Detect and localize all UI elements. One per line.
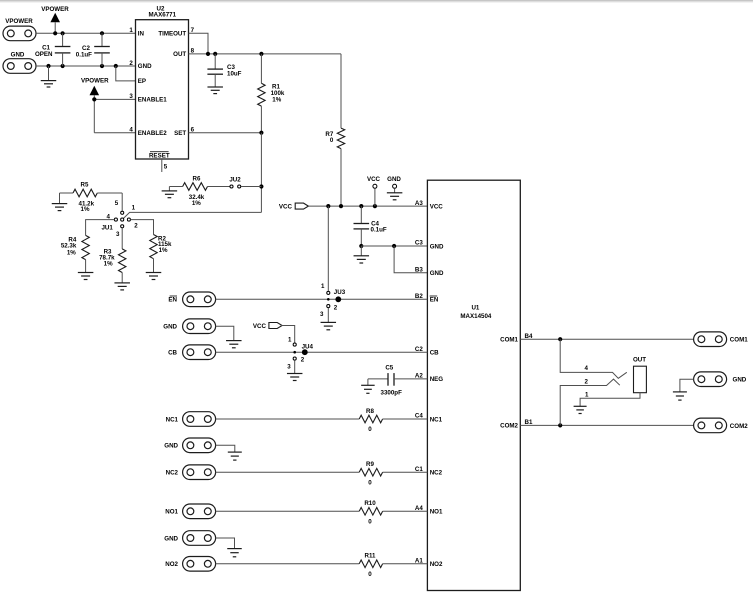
- jumper JU4 pin1: [293, 343, 296, 346]
- connector COM1 pad: [694, 332, 727, 347]
- wire COM1 net: [520, 338, 693, 340]
- svg-text:NC1: NC1: [430, 416, 443, 423]
- svg-text:C3: C3: [415, 240, 423, 247]
- ground (C4): [354, 246, 370, 263]
- connector EN pad: [183, 292, 216, 307]
- svg-text:GND: GND: [430, 243, 444, 250]
- svg-text:VPOWER: VPOWER: [5, 18, 33, 25]
- junction set-R1: [259, 131, 263, 135]
- svg-text:EN: EN: [430, 297, 439, 304]
- svg-text:CB: CB: [430, 350, 439, 357]
- wire JU1 pin4 net: [86, 220, 115, 236]
- svg-text:2: 2: [134, 223, 138, 230]
- svg-text:1%: 1%: [81, 206, 90, 213]
- connector GND pad: [3, 59, 36, 74]
- resistor R8: [359, 415, 382, 423]
- resistor R5: [60, 189, 123, 197]
- svg-text:3300pF: 3300pF: [381, 390, 403, 397]
- svg-text:ENABLE2: ENABLE2: [138, 130, 167, 137]
- ground (GND pad2): [226, 341, 242, 348]
- capacitor C1: [55, 33, 71, 66]
- wire JU3 pin3 net: [327, 308, 329, 323]
- junction wire2-C2: [100, 64, 104, 68]
- connector GND pad 4: [183, 531, 216, 546]
- capacitor C3: [207, 54, 223, 87]
- svg-text:VPOWER: VPOWER: [41, 6, 69, 13]
- ground (JU4): [287, 374, 303, 381]
- jumper JU1 pin4: [114, 218, 117, 221]
- svg-text:NO2: NO2: [430, 561, 443, 568]
- resistor R10: [359, 508, 382, 516]
- connector GND pad 3: [183, 438, 216, 453]
- svg-text:A3: A3: [415, 200, 423, 207]
- power flag VCC 1: [295, 203, 308, 209]
- wire EN net: [216, 298, 428, 300]
- svg-text:COM2: COM2: [500, 423, 518, 430]
- connector NC1 pad: [183, 412, 216, 427]
- svg-text:EP: EP: [138, 78, 146, 85]
- svg-text:GND: GND: [11, 52, 25, 59]
- jumper JU1 pin5: [121, 211, 124, 214]
- ground (R4): [78, 273, 94, 280]
- jumper JU1 pin2: [127, 218, 130, 221]
- connector COM2 pad: [694, 418, 727, 433]
- jumper JU1 pin3: [121, 225, 124, 228]
- wire NC2 net right: [383, 471, 428, 473]
- svg-text:0: 0: [368, 426, 372, 433]
- svg-text:5: 5: [115, 200, 119, 207]
- svg-text:3: 3: [287, 364, 291, 371]
- svg-text:1%: 1%: [104, 260, 113, 267]
- svg-text:VCC: VCC: [367, 176, 381, 183]
- label EN pad (overline): [168, 296, 177, 304]
- wire VCC rail: [308, 205, 427, 207]
- svg-text:COM1: COM1: [730, 337, 748, 344]
- wire GND net: [36, 65, 136, 67]
- connector GND pad 2: [183, 319, 216, 334]
- resistor R2: [150, 235, 157, 273]
- connector VPOWER pad: [3, 26, 36, 41]
- wire JU2 to node1: [241, 186, 262, 188]
- svg-text:ENABLE1: ENABLE1: [138, 97, 167, 104]
- wire TIMEOUT: [189, 33, 209, 54]
- testpoint GND: [393, 184, 397, 193]
- jumper JU3 pin2: [327, 305, 330, 308]
- junction gnd-B3: [392, 244, 396, 248]
- svg-text:U1: U1: [471, 304, 479, 311]
- ground (GND testpoint): [387, 193, 403, 200]
- svg-text:1: 1: [132, 204, 136, 211]
- svg-text:0: 0: [330, 137, 334, 144]
- svg-text:2: 2: [301, 357, 305, 364]
- junction COM1: [558, 337, 562, 341]
- resistor R1: [258, 54, 265, 133]
- wire NO2 net right: [383, 563, 428, 565]
- wire JU4 pin3 net: [294, 360, 296, 373]
- svg-text:3: 3: [320, 311, 324, 318]
- svg-text:NC2: NC2: [166, 470, 179, 477]
- wire CB net: [216, 351, 428, 353]
- junction vcc-R7: [339, 204, 343, 208]
- svg-text:JU1: JU1: [101, 224, 113, 231]
- wire B3 branch: [394, 246, 427, 273]
- svg-text:R5: R5: [81, 181, 89, 188]
- wire NO2 net left: [216, 563, 360, 565]
- connector CB pad: [183, 345, 216, 360]
- svg-text:4: 4: [129, 127, 133, 134]
- junction vcc-JU3: [326, 204, 330, 208]
- junction vcc-C4: [359, 204, 363, 208]
- wire jack pin4: [560, 339, 627, 378]
- svg-text:NC2: NC2: [430, 470, 443, 477]
- svg-text:JU2: JU2: [229, 176, 241, 183]
- svg-text:GND: GND: [138, 63, 152, 70]
- pin name EN (overline): [430, 296, 439, 304]
- wire COM2 net: [520, 424, 693, 426]
- svg-text:1: 1: [288, 337, 292, 344]
- resistor R11: [359, 560, 382, 568]
- junction node1-JU2: [259, 184, 263, 188]
- wire NC1 net right: [383, 418, 428, 420]
- svg-text:VCC: VCC: [430, 203, 444, 210]
- svg-text:2: 2: [585, 379, 589, 386]
- power flag VCC 2: [269, 323, 282, 329]
- svg-text:B3: B3: [415, 266, 423, 273]
- capacitor C2: [94, 33, 110, 66]
- svg-text:RESET: RESET: [149, 152, 170, 159]
- ground (jack): [574, 406, 587, 413]
- junction timeout-out: [206, 52, 210, 56]
- svg-text:VPOWER: VPOWER: [81, 77, 109, 84]
- junction out-R1: [259, 52, 263, 56]
- wire GND right: [680, 379, 694, 392]
- svg-text:0: 0: [368, 479, 372, 486]
- svg-text:GND: GND: [430, 270, 444, 277]
- ground (R6): [162, 187, 178, 198]
- svg-text:1%: 1%: [159, 247, 168, 254]
- testpoint VCC: [373, 184, 377, 206]
- power VPOWER symbol 2: [90, 86, 100, 133]
- svg-text:SET: SET: [174, 130, 186, 137]
- svg-text:GND: GND: [164, 535, 178, 542]
- ground (GND pad3): [228, 452, 242, 460]
- junction CB wire: [302, 349, 308, 355]
- jumper JU4 pin2: [293, 357, 296, 360]
- svg-text:VCC: VCC: [253, 323, 267, 330]
- svg-text:EN: EN: [168, 297, 177, 304]
- svg-text:R8: R8: [366, 408, 374, 415]
- wire node1 vertical: [260, 133, 262, 213]
- svg-text:1%: 1%: [192, 200, 201, 207]
- svg-text:10uF: 10uF: [227, 71, 242, 78]
- capacitor C4: [354, 206, 370, 246]
- svg-text:3: 3: [116, 231, 120, 238]
- svg-text:MAX14504: MAX14504: [460, 313, 492, 320]
- ground (JU3): [321, 322, 337, 329]
- ground (R2): [146, 273, 162, 280]
- wire EP branch: [116, 66, 136, 81]
- junction enable1: [92, 97, 96, 101]
- ground (C3): [207, 87, 223, 94]
- ground (GND pad4): [227, 549, 242, 557]
- svg-text:VCC: VCC: [279, 203, 293, 210]
- svg-text:CB: CB: [168, 350, 177, 357]
- junction wire2-gnd: [46, 64, 50, 68]
- pin name RESET (overline): [149, 152, 170, 160]
- power VPOWER symbol 1: [50, 13, 60, 34]
- resistor R7: [337, 54, 344, 206]
- ground (C5): [361, 379, 375, 393]
- ground (GND right): [673, 392, 687, 400]
- wire JU3 pin1 net: [327, 206, 329, 291]
- connector NO2 pad: [183, 557, 216, 572]
- resistor R4: [82, 235, 89, 272]
- wire JU1 pin2 net: [130, 220, 153, 235]
- resistor R6: [169, 183, 230, 191]
- svg-text:NO1: NO1: [430, 509, 443, 516]
- wire ENABLE2: [94, 132, 135, 134]
- connector NO1 pad: [183, 504, 216, 519]
- svg-text:COM2: COM2: [730, 423, 748, 430]
- svg-text:1: 1: [321, 283, 325, 290]
- junction wire1-C1: [61, 31, 65, 35]
- svg-text:2: 2: [334, 305, 338, 312]
- wire ENABLE1: [94, 98, 135, 100]
- svg-text:COM1: COM1: [500, 336, 518, 343]
- wire jack pin1: [580, 393, 640, 407]
- junction wire2-EP: [114, 64, 118, 68]
- svg-text:GND: GND: [164, 443, 178, 450]
- svg-text:NO2: NO2: [165, 561, 178, 568]
- svg-text:R10: R10: [364, 500, 376, 507]
- svg-text:4: 4: [585, 365, 589, 372]
- svg-text:C5: C5: [385, 365, 393, 372]
- svg-text:NO1: NO1: [165, 509, 178, 516]
- svg-text:MAX6771: MAX6771: [149, 12, 177, 19]
- svg-text:NC1: NC1: [166, 416, 179, 423]
- junction wire2-C1: [61, 64, 65, 68]
- wire C3GND pin: [361, 245, 427, 247]
- wire JU1 pin3 net: [121, 228, 123, 249]
- junction JU4 mid: [293, 351, 296, 354]
- wire node1 horizontal: [123, 212, 261, 218]
- svg-text:OPEN: OPEN: [35, 51, 53, 58]
- svg-text:2: 2: [129, 60, 133, 67]
- resistor R3: [119, 249, 126, 283]
- svg-text:0.1uF: 0.1uF: [76, 51, 92, 58]
- wire jack pin2: [560, 379, 620, 425]
- svg-text:1: 1: [129, 27, 133, 34]
- ground (R3): [114, 283, 130, 290]
- jack J1 sleeve (OUT): [634, 366, 647, 393]
- svg-text:R6: R6: [193, 176, 201, 183]
- wire JU4 pin1 net: [281, 326, 295, 343]
- svg-text:0.1uF: 0.1uF: [371, 227, 387, 234]
- junction JU3 mid: [327, 298, 330, 301]
- jumper JU1 center: [121, 218, 124, 221]
- op-amp U1 MAX14504 box: [427, 180, 520, 590]
- junction EN wire: [335, 296, 341, 302]
- junction COM2: [558, 423, 562, 427]
- svg-text:R9: R9: [366, 461, 374, 468]
- junction out-C3: [213, 52, 217, 56]
- op-amp U2 MAX6771 box: [136, 20, 189, 159]
- svg-text:3: 3: [129, 93, 133, 100]
- svg-text:OUT: OUT: [633, 357, 646, 364]
- capacitor C5: [368, 373, 428, 386]
- svg-text:JU4: JU4: [302, 343, 314, 350]
- resistor R9: [359, 468, 382, 476]
- pin 5 stem (RESET): [161, 159, 163, 172]
- connector NC2 pad: [183, 465, 216, 480]
- svg-text:OUT: OUT: [173, 51, 186, 58]
- wire VPOWER net (IN): [36, 32, 136, 34]
- wire OUT net: [189, 53, 342, 55]
- wire GND pad2: [216, 326, 234, 340]
- wire NO1 net right: [383, 510, 428, 512]
- wire SET net: [189, 132, 262, 134]
- svg-text:1%: 1%: [67, 249, 76, 256]
- wire R5 to JU1 pin5: [121, 193, 123, 211]
- svg-text:GND: GND: [387, 176, 401, 183]
- svg-text:JU3: JU3: [334, 289, 346, 296]
- wire GND pad4: [216, 538, 235, 549]
- wire NC1 net left: [216, 418, 360, 420]
- connector GND pad right: [694, 372, 727, 387]
- wire GND pad3: [216, 445, 235, 452]
- svg-text:R11: R11: [364, 553, 376, 560]
- junction wire1-C2: [100, 31, 104, 35]
- svg-text:GND: GND: [163, 324, 177, 331]
- ground (input GND): [41, 66, 57, 87]
- svg-text:NEG: NEG: [430, 376, 444, 383]
- junction wire1-arrow: [53, 31, 57, 35]
- junction vcc-tp: [373, 204, 377, 208]
- jumper JU3 pin1: [327, 291, 330, 294]
- svg-text:1%: 1%: [272, 97, 281, 104]
- svg-text:0: 0: [368, 571, 372, 578]
- svg-text:TIMEOUT: TIMEOUT: [158, 31, 186, 38]
- svg-text:5: 5: [164, 164, 168, 171]
- ground (R5): [52, 193, 68, 211]
- wire NC2 net left: [216, 471, 360, 473]
- svg-text:1: 1: [585, 391, 589, 398]
- svg-text:IN: IN: [138, 31, 145, 38]
- junction C4-gnd: [359, 244, 363, 248]
- svg-text:GND: GND: [733, 377, 747, 384]
- jumper JU2: [230, 185, 241, 188]
- svg-text:0: 0: [368, 518, 372, 525]
- wire NO1 net left: [216, 510, 360, 512]
